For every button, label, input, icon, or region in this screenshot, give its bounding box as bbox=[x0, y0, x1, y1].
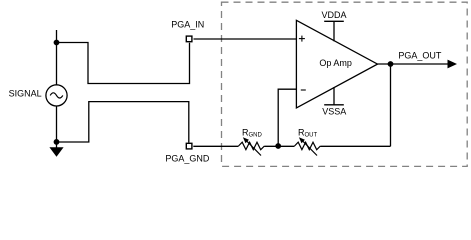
wire: source bottom vertical bbox=[56, 106, 58, 148]
wire: feedback to op-amp - input bbox=[278, 89, 296, 146]
node junction dot (source bottom) bbox=[54, 139, 60, 145]
dashed boundary box bbox=[222, 2, 468, 166]
node junction dot (source top) bbox=[54, 40, 60, 46]
ground (down arrow) bbox=[49, 147, 63, 157]
node junction dot (output) bbox=[388, 61, 394, 67]
op-amp U1 (Op Amp triangle) bbox=[296, 20, 377, 108]
resistor RGND bbox=[239, 137, 265, 155]
svg-text:VDDA: VDDA bbox=[322, 10, 347, 20]
wire: output feedback vertical bbox=[390, 64, 392, 146]
wire: op-amp output with arrow to PGA_OUT bbox=[378, 60, 458, 69]
wire: RGND to ROUT (feedback node segment) bbox=[264, 145, 294, 147]
wire: source top vertical bbox=[56, 30, 58, 85]
node junction dot (feedback) bbox=[275, 143, 281, 149]
wire: bottom route from source to PGA_GND bbox=[57, 102, 189, 143]
power VSSA rail bbox=[324, 87, 344, 105]
power VDDA rail bbox=[324, 21, 344, 41]
svg-text:SIGNAL: SIGNAL bbox=[9, 88, 42, 98]
terminal PGA_IN (square pin) bbox=[186, 36, 192, 42]
svg-text:PGA_OUT: PGA_OUT bbox=[398, 51, 442, 61]
svg-text:ROUT: ROUT bbox=[298, 127, 318, 138]
wire: top route from source to PGA_IN bbox=[57, 43, 190, 84]
wire: PGA_IN to op-amp + input bbox=[194, 38, 297, 40]
resistor ROUT bbox=[295, 137, 321, 155]
terminal PGA_GND (square pin) bbox=[186, 143, 192, 149]
svg-text:PGA_GND: PGA_GND bbox=[165, 154, 210, 164]
voltage source SIGNAL (AC source circle) bbox=[46, 85, 67, 106]
svg-text:RGND: RGND bbox=[242, 127, 263, 138]
svg-text:PGA_IN: PGA_IN bbox=[171, 19, 204, 29]
wire: PGA_GND to resistor RGND bbox=[193, 145, 238, 147]
svg-text:VSSA: VSSA bbox=[322, 106, 346, 116]
svg-text:Op Amp: Op Amp bbox=[319, 58, 352, 68]
wire: ROUT to output leg bbox=[320, 145, 390, 147]
